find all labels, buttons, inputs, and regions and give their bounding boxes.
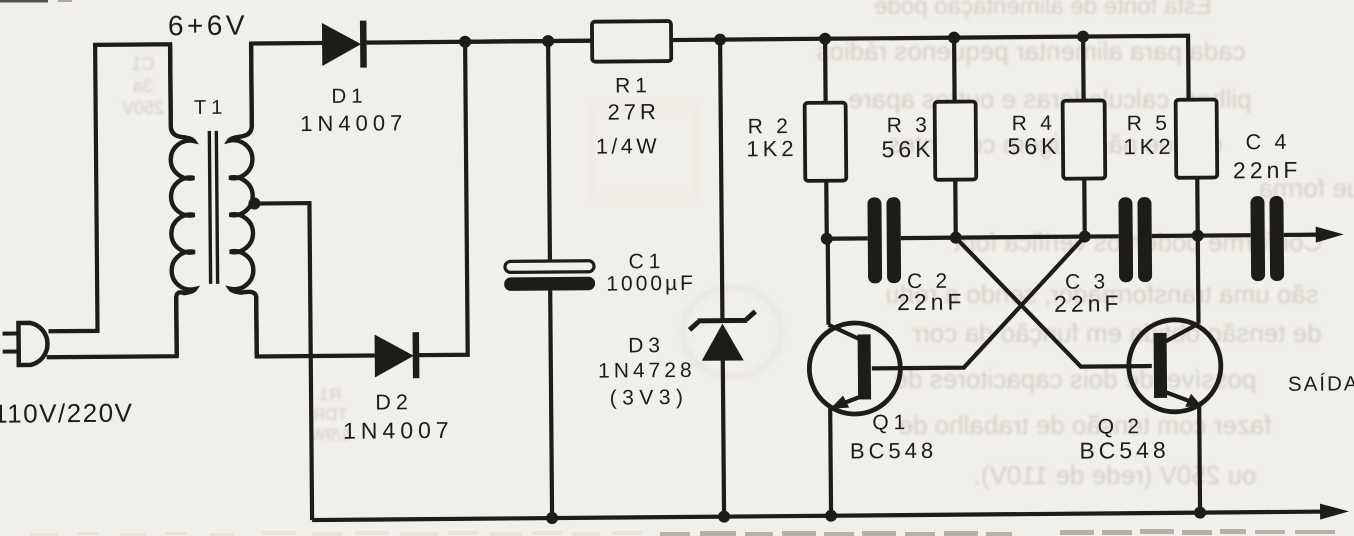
- ghost faint ellipse: [683, 287, 781, 377]
- svg-text:6+6V: 6+6V: [168, 10, 248, 42]
- wire R4 bottom: [1082, 179, 1087, 237]
- svg-text:R1: R1: [615, 74, 652, 97]
- node R4 bottom junction: [1079, 231, 1091, 243]
- svg-text:Conforme podemos verifica fo: Conforme podemos verifica font: [953, 227, 1322, 257]
- capacitor C2: [867, 197, 901, 283]
- node R4 top junction: [1077, 31, 1089, 43]
- resistor R3: [935, 101, 977, 179]
- svg-text:1N4007: 1N4007: [300, 110, 407, 136]
- svg-text:27R: 27R: [607, 99, 660, 124]
- svg-text:R 3: R 3: [887, 114, 931, 137]
- node C1 top junction: [542, 35, 554, 47]
- wire R4 top: [1081, 37, 1086, 101]
- resistor R2: [805, 103, 847, 181]
- svg-text:1N4728: 1N4728: [598, 359, 696, 383]
- wire R2 bottom: [824, 181, 829, 239]
- transistor Q2: [1128, 319, 1221, 412]
- svg-text:250V: 250V: [122, 98, 164, 118]
- svg-text:BC548: BC548: [1079, 437, 1170, 464]
- wire R3 bottom: [953, 180, 958, 238]
- wire node row C2 to R4: [901, 237, 1085, 239]
- capacitor C4: [1250, 196, 1284, 281]
- wire R3 top: [952, 38, 957, 102]
- node center tap: [248, 197, 260, 209]
- zener diode D3: [689, 311, 755, 361]
- wire D2 cathode up to top rail: [411, 42, 468, 355]
- svg-text:C1: C1: [131, 54, 154, 74]
- wire node row R4 to C3: [1085, 234, 1119, 238]
- svg-text:de tensão obtida em função da: de tensão obtida em função da corr: [912, 318, 1321, 348]
- svg-text:22nF: 22nF: [1233, 157, 1302, 184]
- svg-text:R1: R1: [319, 385, 341, 404]
- wire node row C3 to C4: [1152, 233, 1251, 238]
- wire center tap down to bottom rail: [254, 203, 312, 520]
- diode D2: [375, 332, 420, 378]
- wire C1 top: [548, 41, 550, 262]
- svg-text:cada para alimentar pequenos r: cada para alimentar pequenos rádios: [816, 36, 1245, 66]
- node zener bottom junction: [718, 511, 730, 523]
- transistor Q1: [809, 323, 901, 415]
- svg-text:3a: 3a: [132, 76, 153, 96]
- node R3 top junction: [948, 32, 960, 44]
- svg-text:SAÍDA: SAÍDA: [1288, 372, 1354, 396]
- bottom edge cut text fragments right: [660, 529, 1335, 536]
- transformer T1 primary winding: [170, 44, 196, 356]
- wire R1 to right rail: [671, 36, 1189, 104]
- node Q1 emitter junction: [825, 510, 837, 522]
- resistor R1: [592, 21, 671, 62]
- svg-text:R 4: R 4: [1012, 112, 1056, 135]
- svg-text:1N4007: 1N4007: [343, 417, 454, 444]
- svg-text:1K2: 1K2: [746, 136, 797, 161]
- wire Q1 collector up: [826, 239, 831, 325]
- svg-text:56K: 56K: [881, 136, 934, 162]
- svg-text:R 5: R 5: [1127, 112, 1171, 135]
- node R2 top junction: [819, 33, 831, 45]
- wire Q1 emitter down: [828, 408, 833, 516]
- wire secondary top to D1: [251, 43, 324, 124]
- node Q2 emitter junction: [1194, 507, 1206, 519]
- capacitor C3: [1118, 197, 1152, 282]
- resistor R5: [1176, 99, 1218, 177]
- svg-text:C 4: C 4: [1245, 130, 1290, 154]
- wire cross-couple R3 node to Q2 base: [956, 236, 1152, 368]
- wire C1 bottom: [550, 290, 552, 518]
- svg-text:D3: D3: [628, 334, 665, 357]
- arrowhead bottom rail: [1320, 503, 1349, 519]
- svg-text:110V/220V: 110V/220V: [0, 398, 134, 429]
- svg-text:Q1: Q1: [872, 411, 910, 434]
- svg-text:C1: C1: [628, 250, 665, 273]
- wire cross-couple R4 node to Q1 base: [871, 237, 1086, 369]
- svg-text:D2: D2: [375, 390, 413, 414]
- wire plug bottom to primary bottom: [46, 296, 176, 357]
- wire Q2 emitter down: [1197, 407, 1202, 513]
- diode D1: [322, 21, 367, 68]
- svg-text:22nF: 22nF: [897, 289, 966, 316]
- resistor R4: [1063, 100, 1106, 178]
- node C1 bottom junction: [546, 512, 558, 524]
- svg-text:1000µF: 1000µF: [606, 272, 696, 296]
- transformer T1 core: [209, 131, 217, 284]
- wire output top with arrow: [1284, 232, 1322, 237]
- wire plug top to primary top: [46, 44, 172, 331]
- AC plug P1: [2, 323, 47, 365]
- node zener top junction: [714, 34, 726, 46]
- svg-text:T1: T1: [194, 97, 228, 119]
- wire node row Q1 collector to C2: [827, 236, 868, 241]
- capacitor C1: [504, 261, 595, 291]
- wire secondary bottom to D2: [256, 295, 375, 357]
- node R3 bottom junction: [950, 232, 962, 244]
- wire zener column: [720, 40, 724, 517]
- node R5 bottom junction: [1192, 230, 1204, 242]
- svg-text:Esta fonte de alimentação pode: Esta fonte de alimentação pode: [874, 0, 1212, 20]
- svg-text:D1: D1: [331, 85, 367, 108]
- svg-text:BC548: BC548: [850, 438, 937, 464]
- svg-text:56K: 56K: [1007, 133, 1060, 159]
- svg-text:1/4W: 1/4W: [596, 134, 660, 159]
- svg-text:Q 2: Q 2: [1098, 415, 1143, 438]
- svg-text:22nF: 22nF: [1054, 290, 1123, 317]
- svg-text:R 2: R 2: [748, 115, 792, 138]
- node Q1 collector junction: [821, 233, 833, 245]
- transformer T1 secondary winding: [228, 44, 257, 357]
- wire R5 bottom: [1195, 178, 1200, 236]
- svg-text:ou 250V (rede de 110V).: ou 250V (rede de 110V).: [974, 460, 1257, 490]
- svg-text:(3V3): (3V3): [610, 386, 689, 410]
- svg-text:fazer com tensão de trabalho: fazer com tensão de trabalho de: [899, 410, 1272, 440]
- wire Q2 collector up: [1196, 236, 1201, 324]
- top-left edge scan line: [0, 0, 48, 3]
- ghost faint box: [590, 108, 695, 196]
- wire D1 cathode to rail: [361, 41, 592, 43]
- wire R2 top: [823, 39, 828, 103]
- bottom rail wire: [312, 512, 1326, 520]
- bottom edge cut text fragments left: [30, 531, 642, 536]
- svg-text:1K2: 1K2: [1123, 134, 1174, 159]
- arrowhead output top: [1316, 226, 1344, 242]
- wire rail D1 to R1: [465, 41, 592, 42]
- node D2-rail junction: [459, 36, 471, 48]
